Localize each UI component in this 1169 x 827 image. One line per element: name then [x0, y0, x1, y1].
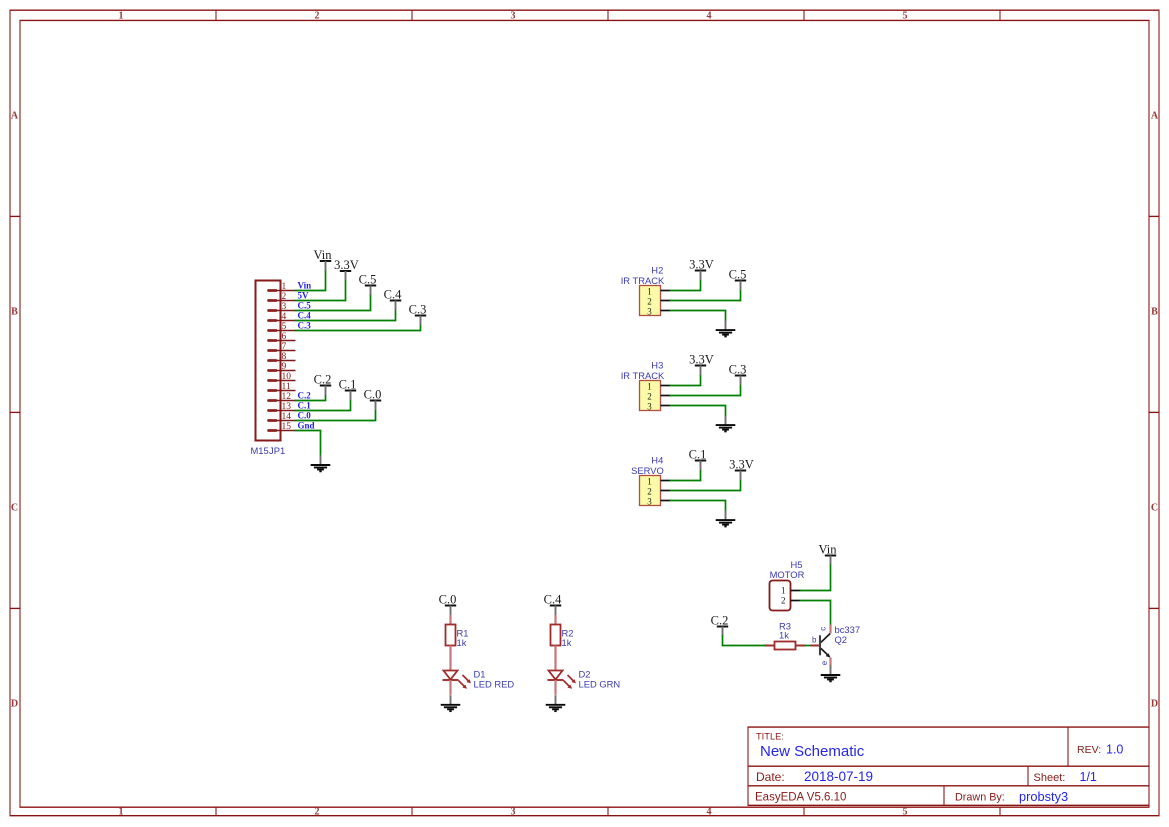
svg-text:2: 2 [647, 392, 652, 402]
frame row ticks right [1149, 216, 1159, 608]
svg-text:b: b [812, 636, 817, 645]
svg-text:LED GRN: LED GRN [579, 679, 621, 690]
svg-text:Vin: Vin [298, 281, 312, 291]
svg-text:D: D [1151, 698, 1158, 709]
pin 4 of JP1 [269, 311, 312, 322]
frame column ticks bottom [216, 807, 1000, 816]
net flag 3.3V (H4 pin2) [729, 458, 754, 481]
svg-text:2: 2 [315, 807, 320, 818]
svg-text:e: e [820, 660, 829, 665]
wire C.2 to R3 [723, 636, 765, 645]
title block frame [748, 727, 1150, 805]
svg-text:4: 4 [707, 11, 712, 22]
svg-text:1k: 1k [562, 637, 572, 648]
wire JP1 pin4 to C.4 [296, 310, 396, 320]
wire H2 pin3 to ground [671, 311, 726, 321]
wire JP1 pin13 to C.1 [296, 400, 351, 410]
wire H4 pin1 [671, 471, 701, 481]
wire H4 pin2 [671, 481, 741, 491]
label M15 JP1 [251, 445, 286, 456]
svg-text:C.5: C.5 [729, 268, 747, 282]
svg-text:1k: 1k [457, 637, 467, 648]
svg-text:3: 3 [282, 302, 287, 312]
LED D1 [443, 646, 472, 695]
wire JP1 pin12 to C.2 [296, 395, 326, 400]
svg-text:C.1: C.1 [689, 448, 707, 462]
svg-text:1: 1 [119, 11, 124, 22]
svg-text:B: B [11, 306, 18, 317]
net flag C.1 (H4 pin1) [689, 448, 707, 471]
pin 14 of JP1 [269, 411, 312, 422]
net flag C.2 (R3) [711, 614, 729, 637]
svg-text:C.0: C.0 [364, 388, 382, 402]
wire JP1 pin2 to 3.3V [296, 281, 346, 301]
frame row ticks left [10, 216, 20, 608]
net flag 3.3V (H2 pin1) [689, 258, 714, 281]
wire JP1 pin14 to C.0 [296, 410, 376, 420]
svg-text:SERVO: SERVO [631, 465, 664, 476]
wire H5 pin1 to Vin [801, 565, 831, 590]
svg-text:C.3: C.3 [729, 363, 747, 377]
svg-text:C.1: C.1 [339, 378, 357, 392]
svg-text:Sheet:: Sheet: [1034, 772, 1066, 784]
pin 11 of JP1 [269, 382, 296, 392]
net flag C.5 (H2 pin2) [729, 268, 747, 291]
svg-text:B: B [1151, 306, 1158, 317]
frame column labels bottom [119, 807, 908, 818]
svg-text:1: 1 [282, 282, 287, 292]
net flag C.3 (JP1) [409, 303, 427, 326]
svg-text:6: 6 [282, 332, 287, 342]
svg-text:7: 7 [282, 342, 287, 352]
svg-text:EasyEDA V5.6.10: EasyEDA V5.6.10 [755, 792, 846, 804]
svg-text:13: 13 [282, 402, 292, 412]
svg-text:c: c [819, 627, 828, 631]
svg-text:1: 1 [647, 287, 652, 297]
pin 13 of JP1 [269, 401, 312, 412]
net flag C.0 (JP1) [364, 388, 382, 411]
svg-text:JP1: JP1 [269, 445, 285, 456]
svg-text:1: 1 [647, 477, 652, 487]
frame column ticks top [216, 10, 1000, 20]
svg-text:Drawn By:: Drawn By: [955, 792, 1005, 804]
net flag C.1 (JP1) [339, 378, 357, 401]
svg-text:3: 3 [511, 807, 516, 818]
svg-text:1k: 1k [779, 629, 789, 640]
pin 2 of JP1 [269, 291, 310, 302]
svg-text:10: 10 [282, 372, 292, 382]
net flag C.4 (R2) [544, 593, 562, 616]
wire H3 pin1 [671, 376, 701, 386]
svg-text:2: 2 [282, 292, 287, 302]
pin 7 of JP1 [269, 342, 296, 352]
svg-text:New Schematic: New Schematic [760, 743, 865, 760]
pin 6 of JP1 [269, 332, 296, 342]
svg-text:3.3V: 3.3V [334, 258, 359, 272]
svg-text:C.4: C.4 [384, 288, 402, 302]
svg-text:C.5: C.5 [298, 301, 312, 311]
svg-text:2: 2 [315, 11, 320, 22]
net flag C.0 (R1) [439, 593, 457, 616]
svg-text:9: 9 [282, 362, 287, 372]
svg-text:Gnd: Gnd [298, 421, 315, 431]
pin 15 of JP1 [269, 421, 315, 432]
svg-text:C.2: C.2 [711, 614, 729, 628]
svg-text:3: 3 [647, 402, 652, 412]
svg-text:C.3: C.3 [298, 321, 312, 331]
svg-text:4: 4 [707, 807, 712, 818]
ground G1 (JP1 Gnd) [311, 455, 331, 471]
svg-text:TITLE:: TITLE: [756, 732, 784, 742]
svg-text:1: 1 [647, 382, 652, 392]
net flag 3.3V (H3 pin1) [689, 353, 714, 376]
svg-text:5: 5 [282, 322, 287, 332]
svg-text:Q2: Q2 [835, 634, 848, 645]
svg-text:C.1: C.1 [298, 401, 312, 411]
svg-text:11: 11 [282, 382, 291, 392]
svg-text:H3: H3 [651, 360, 663, 371]
svg-text:5: 5 [903, 807, 908, 818]
svg-text:C: C [1151, 502, 1158, 513]
svg-text:1/1: 1/1 [1080, 770, 1097, 784]
svg-text:2018-07-19: 2018-07-19 [804, 769, 873, 784]
svg-text:C.0: C.0 [298, 411, 312, 421]
svg-text:3: 3 [511, 11, 516, 22]
pin 10 of JP1 [269, 372, 296, 382]
svg-text:probsty3: probsty3 [1019, 789, 1068, 804]
net flag C.5 (JP1) [359, 273, 377, 296]
svg-text:1.0: 1.0 [1106, 743, 1123, 757]
frame column labels top [119, 11, 908, 22]
svg-text:12: 12 [282, 392, 292, 402]
svg-text:5V: 5V [298, 291, 310, 301]
svg-text:IR TRACK: IR TRACK [621, 275, 665, 286]
svg-text:3: 3 [647, 497, 652, 507]
pin 8 of JP1 [269, 352, 296, 362]
ground G (H4) [716, 511, 736, 527]
net flag Vin (H5) [819, 543, 838, 566]
svg-text:Vin: Vin [314, 248, 333, 262]
pin 3 of JP1 [269, 301, 312, 312]
net flag C.3 (H3 pin2) [729, 363, 747, 386]
svg-text:1: 1 [781, 585, 786, 595]
svg-text:4: 4 [282, 312, 287, 322]
wire JP1 pin15 to ground [296, 431, 321, 456]
pin 12 of JP1 [269, 391, 312, 402]
wire R3 to Q2 base [806, 645, 811, 647]
svg-text:M15: M15 [251, 445, 269, 456]
connector H5 body [770, 581, 801, 611]
svg-text:H4: H4 [651, 455, 663, 466]
wire H3 pin2 [671, 386, 741, 396]
svg-text:A: A [1151, 110, 1159, 121]
svg-text:8: 8 [282, 352, 287, 362]
ground G (Q2 emitter) [821, 665, 841, 681]
net flag C.4 (JP1) [384, 288, 402, 311]
frame row labels right [1151, 110, 1159, 709]
svg-text:A: A [11, 110, 19, 121]
pin 9 of JP1 [269, 362, 296, 372]
svg-text:C.5: C.5 [359, 273, 377, 287]
svg-text:IR TRACK: IR TRACK [621, 370, 665, 381]
ground G (D1) [441, 695, 461, 711]
LED D2 [548, 646, 577, 695]
svg-text:C.4: C.4 [544, 593, 562, 607]
ground G (H2) [716, 321, 736, 337]
ground G (H3) [716, 416, 736, 432]
svg-text:Date:: Date: [756, 770, 785, 784]
svg-text:Vin: Vin [819, 543, 838, 557]
frame row labels left [11, 110, 19, 709]
wire JP1 pin3 to C.5 [296, 295, 371, 310]
wire JP1 pin5 to C.3 [296, 325, 421, 330]
wire H2 pin1 [671, 281, 701, 291]
svg-text:1: 1 [119, 807, 124, 818]
svg-text:H2: H2 [651, 265, 663, 276]
svg-text:2: 2 [647, 487, 652, 497]
svg-text:14: 14 [282, 412, 292, 422]
svg-text:C.4: C.4 [298, 311, 312, 321]
connector JP1 body [256, 281, 281, 441]
svg-text:3.3V: 3.3V [689, 353, 714, 367]
wire H5 pin2 to Q2 collector [801, 601, 831, 625]
wire H4 pin3 to ground [671, 501, 726, 511]
svg-text:2: 2 [647, 297, 652, 307]
svg-text:3: 3 [647, 307, 652, 317]
connector H4 body [640, 476, 671, 507]
svg-text:3.3V: 3.3V [729, 458, 754, 472]
svg-text:C: C [11, 502, 18, 513]
wire JP1 pin1 to Vin [296, 271, 326, 291]
svg-text:C.0: C.0 [439, 593, 457, 607]
svg-text:3.3V: 3.3V [689, 258, 714, 272]
svg-text:REV:: REV: [1077, 744, 1101, 756]
resistor R2 [551, 615, 561, 646]
connector H3 body [640, 381, 671, 412]
net flag 3.3V (JP1) [334, 258, 359, 281]
svg-text:LED RED: LED RED [474, 679, 515, 690]
resistor R3 [765, 642, 806, 650]
svg-text:15: 15 [282, 422, 292, 432]
wire H2 pin2 [671, 291, 741, 301]
svg-text:5: 5 [903, 11, 908, 22]
svg-text:C.3: C.3 [409, 303, 427, 317]
svg-text:2: 2 [781, 596, 786, 606]
resistor R1 [446, 615, 456, 646]
transistor Q2 [811, 625, 831, 667]
svg-text:C.2: C.2 [314, 373, 332, 387]
ground G (D2) [546, 695, 566, 711]
svg-text:C.2: C.2 [298, 391, 312, 401]
connector H2 body [640, 286, 671, 317]
net flag C.2 (JP1) [314, 373, 332, 396]
net flag Vin (JP1) [314, 248, 333, 271]
pin 1 of JP1 [269, 281, 312, 292]
wire H3 pin3 to ground [671, 406, 726, 416]
svg-text:MOTOR: MOTOR [770, 569, 805, 580]
svg-text:D: D [11, 698, 18, 709]
pin 5 of JP1 [269, 321, 312, 332]
